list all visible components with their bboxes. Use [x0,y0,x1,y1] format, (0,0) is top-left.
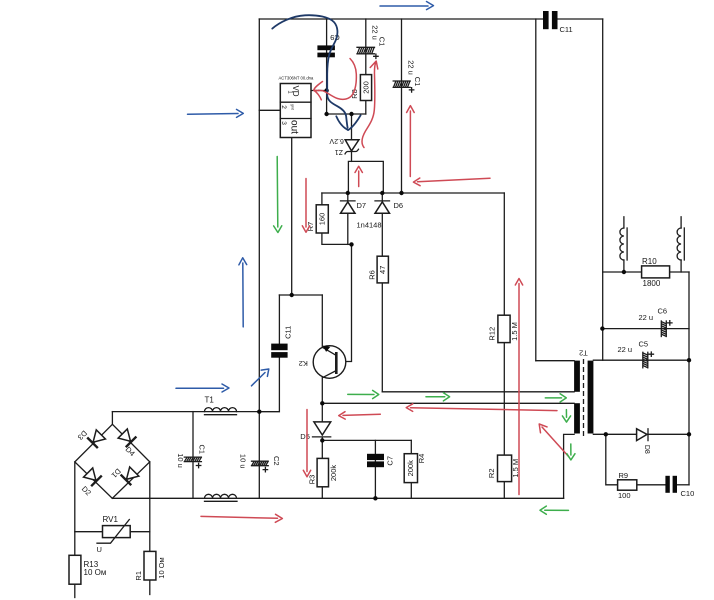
svg-text:C2: C2 [272,456,281,466]
capacitor C11 top right [543,11,573,34]
resistor R9 [618,471,637,500]
arrow blue curve to zener [272,15,360,130]
svg-text:C6: C6 [658,306,668,315]
arrow red down to R3 [303,410,310,477]
wire node y295 [279,294,322,296]
arrow red left y180 [413,178,490,186]
svg-text:1800: 1800 [643,279,661,288]
resistor R8 [350,75,371,101]
wire R12-R2 chain [503,193,505,498]
arrow red S-curve to IC pin [314,59,357,100]
varistor RV1 [97,515,131,554]
wire C11 left branch [259,295,279,412]
wire node y440 [322,439,411,441]
svg-text:gnd: gnd [291,104,295,110]
IC U1 regulator [279,76,315,138]
wire top rail [259,18,602,20]
wire RV1 leads [75,531,150,533]
wire collector [321,295,323,347]
svg-text:ACT306NT 00.dna: ACT306NT 00.dna [279,76,315,81]
arrow red up beside C1b [407,106,415,177]
svg-text:K2: K2 [299,359,308,368]
resistor R7 [306,205,328,233]
arrow red up in box [355,166,362,186]
arrow green right 1 [348,390,379,398]
wire C9 branch vertical [326,19,328,114]
arrow red diagonal up-left [539,424,569,457]
svg-text:D8: D8 [643,445,650,454]
arrow blue to IC [188,109,244,117]
svg-text:R10: R10 [642,257,657,266]
svg-text:1n4148: 1n4148 [357,220,382,229]
wire transformer return [564,434,575,498]
resistor R1 [134,551,166,580]
transistor Q1 K2 [299,346,346,379]
svg-text:RV1: RV1 [103,515,119,524]
arrow blue above T1 [176,384,229,392]
choke T1 bottom winding [205,494,238,501]
arrow red left long y408 [406,404,557,412]
wire C1b branch vertical [401,19,403,193]
wire R4 branch [410,440,412,498]
svg-text:22 u: 22 u [639,313,654,322]
capacitor C5 [618,339,654,368]
wire C7 branch [374,440,376,498]
svg-text:10 Ом: 10 Ом [84,568,107,577]
svg-text:10 Ом: 10 Ом [157,557,166,578]
arrow blue diagonal [252,369,269,386]
bridge diode D2 [83,467,102,486]
resistor R6 [367,256,388,283]
svg-text:Z1: Z1 [335,148,343,155]
capacitor C10 [665,476,694,498]
arrow red up x519 [515,279,522,495]
svg-text:C1: C1 [198,445,207,455]
arrow green down long [274,157,282,233]
svg-text:R2: R2 [487,469,496,479]
wire rail B y403.3 [322,402,574,404]
label 1n4148 [357,220,382,229]
svg-text:out: out [288,120,299,134]
diode D7 [341,201,367,214]
arrow green right 3 [545,394,566,402]
svg-text:2: 2 [280,105,287,109]
svg-text:R4: R4 [417,454,426,464]
arrow blue vertical up [239,258,247,327]
svg-text:47: 47 [378,266,387,274]
capacitor C1 10u [176,445,207,468]
inductor L1 [620,228,627,260]
arrow green down 2 [567,444,575,460]
svg-text:10 u: 10 u [176,453,185,468]
svg-text:100: 100 [618,491,631,500]
diode D6 [375,201,403,214]
wire IC pin1 [311,90,327,92]
wire bottom rail [112,497,563,499]
wire transistor base [346,244,351,361]
diode D5 [300,422,330,441]
resistor R12 [487,315,518,342]
resistor R3 [307,458,337,486]
svg-text:C11: C11 [560,25,573,34]
arrow green right 2 [426,393,450,401]
svg-text:200k: 200k [406,460,415,477]
wire R10 rail [603,271,689,273]
svg-text:D5: D5 [300,432,310,441]
capacitor C2 [239,454,281,472]
svg-text:C10: C10 [681,489,695,498]
svg-text:T2: T2 [579,349,588,358]
wire bridge diamond [75,424,150,498]
svg-text:R6: R6 [367,270,376,280]
bridge diode D1 [121,466,140,485]
capacitor C6 [639,306,673,336]
svg-text:R1: R1 [134,571,143,581]
wire right outer vertical [688,272,690,485]
svg-text:22 u: 22 u [618,345,633,354]
wire D7 branch [347,193,349,244]
svg-text:C1: C1 [413,77,422,87]
arrow blue top [380,2,434,10]
wire node y114 [327,113,366,115]
arrow red right bottom [201,514,282,522]
svg-text:22 u: 22 u [407,60,416,75]
arrow red left short y415 [339,412,381,419]
wire box under zener [348,161,383,193]
wire left outer vertical [258,19,260,498]
arrow red curve along R8 [362,61,378,148]
wire T1 top rail [112,411,259,413]
wire transformer secondary top [593,359,689,361]
svg-text:C1: C1 [378,37,387,47]
wire R7 branch [322,193,352,244]
svg-text:R9: R9 [619,471,629,480]
arrow green down 1 [562,410,570,423]
wire transformer secondary bottom [593,433,689,435]
resistor R10 [642,257,670,288]
wire C1a-R8 branch vertical [365,19,367,114]
svg-text:R3: R3 [307,475,316,485]
svg-text:T1: T1 [205,396,215,405]
choke T1 top winding [205,396,237,415]
resistor R13 [69,555,106,584]
wire D5-R3 branch [321,403,323,498]
wire IC pin3 out [291,138,293,296]
svg-text:U: U [97,545,102,554]
bridge diode D3 [87,429,106,448]
resistor R4 [404,454,426,483]
bridge diode D4 [117,428,136,447]
svg-text:160: 160 [317,213,326,226]
svg-text:1.5 M: 1.5 M [510,322,519,341]
svg-text:D6: D6 [394,201,404,210]
wire coil leads [624,217,681,272]
wire IC pin2 [259,109,280,111]
svg-text:C5: C5 [639,339,649,348]
svg-text:200: 200 [361,81,370,94]
svg-text:R12: R12 [487,327,496,341]
capacitor C1 22u (first) [357,25,387,58]
wire D6-R6 branch [381,193,383,392]
svg-text:10 u: 10 u [239,454,248,469]
svg-text:C7: C7 [385,456,394,466]
wire C1 10u branch [192,412,194,499]
svg-text:C11: C11 [283,326,292,339]
arrow red down beside R7 [302,179,309,233]
capacitor C9 [317,33,339,57]
wire C6 line [602,328,689,330]
wire bridge left vertical [74,462,76,598]
transformer T2 [574,349,593,436]
svg-text:6.2V: 6.2V [329,137,344,144]
zener Z1 [329,137,359,155]
capacitor C7 [367,454,394,467]
wire C11 right vertical [602,19,604,360]
wire vertical to transformer top [535,19,537,361]
wire rail A y391.8 [382,391,574,393]
svg-text:D7: D7 [357,201,367,210]
capacitor C11 left [271,326,292,358]
wire bridge right vertical [149,462,151,595]
svg-text:3: 3 [280,121,287,125]
arrow green left bottom [540,506,569,514]
wire transformer top left [536,360,574,362]
wire zener branch [351,114,353,161]
wire emitter [321,377,323,403]
wire R9-C10 line [606,434,689,485]
wire bridge top stub [111,412,113,425]
wire rail y193 [322,192,504,194]
inductor L2 [677,228,684,260]
capacitor C1 22u (second) [393,60,422,92]
diode D8 [637,429,650,454]
resistor R2 [487,455,520,482]
svg-text:200k: 200k [329,465,338,482]
